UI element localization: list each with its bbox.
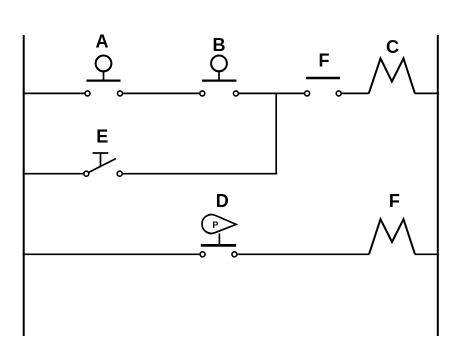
heater element C: [369, 58, 415, 93]
svg-text:A: A: [96, 32, 109, 52]
svg-text:B: B: [213, 35, 226, 55]
svg-text:C: C: [386, 37, 399, 57]
svg-text:E: E: [96, 126, 108, 146]
contact F (normally closed): [305, 78, 342, 96]
wire rung1: A to B: [123, 92, 200, 94]
svg-text:F: F: [319, 50, 330, 70]
pushbutton B (normally open): [200, 56, 239, 96]
wire rung3: D to coil F: [237, 253, 369, 255]
wire rung1: F to heater C: [341, 92, 369, 94]
pressure switch D (normally open): [200, 215, 237, 257]
wire rung1: B to contact F: [238, 92, 304, 94]
wire rung2: left rail to switch E: [23, 173, 84, 175]
wire rung2: E to branch node: [122, 173, 277, 175]
temperature switch E (normally open): [84, 153, 122, 176]
heater element F: [369, 219, 415, 254]
wire rung1: left rail to pushbutton A: [23, 92, 85, 94]
wire rung3: F to right rail: [415, 253, 439, 255]
wire rung1: C to right rail: [415, 92, 439, 94]
right power rail L2: [437, 35, 439, 336]
svg-text:P: P: [212, 220, 218, 230]
wire branch: rung2 up to rung1: [275, 93, 277, 174]
left power rail L1: [23, 35, 25, 336]
svg-text:D: D: [216, 191, 229, 211]
wire rung3: left rail to pressure switch D: [23, 253, 200, 255]
pushbutton A (normally open): [85, 56, 123, 96]
svg-text:F: F: [389, 191, 400, 211]
